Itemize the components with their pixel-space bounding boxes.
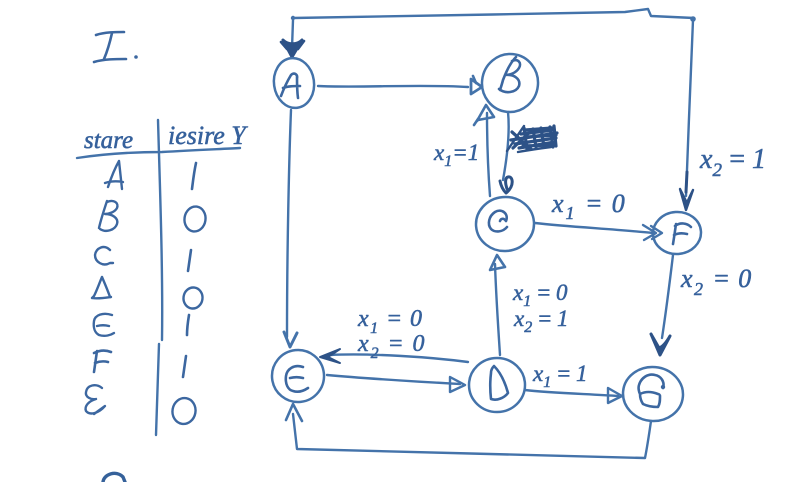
table vertical line (156, 120, 162, 435)
open arrowhead into E bottom (286, 404, 302, 421)
svg-text:x2 = 1: x2 = 1 (699, 144, 766, 181)
node A letter (281, 74, 300, 98)
open arrowhead into C bottom (490, 255, 505, 270)
heading roman numeral I. (94, 32, 138, 62)
table value 0 (G) (170, 396, 197, 426)
node A circle (271, 55, 318, 110)
open arrowhead into B bottom (477, 105, 494, 121)
node C circle (474, 195, 536, 254)
open arrowhead into B (471, 79, 482, 94)
wire C up to B (x1=1) (487, 113, 490, 196)
table row letter B (99, 201, 117, 231)
table value 1 (A) (192, 163, 196, 189)
arrowhead into C (500, 177, 512, 193)
wire E to D (lower) (327, 375, 460, 384)
node G circle (621, 364, 685, 423)
node D circle (469, 358, 525, 412)
scribble (crossed-out label) (507, 126, 557, 152)
node F letter (673, 223, 691, 244)
wire C to F (x1=0) (535, 223, 653, 233)
svg-text:x2 = 1: x2 = 1 (513, 306, 568, 336)
filled arrowhead into E (320, 349, 340, 363)
open arrowhead into E top (284, 332, 297, 347)
table row letter F (94, 351, 111, 372)
wire D to G (x1=1) (525, 390, 618, 396)
start dot (291, 16, 295, 20)
node G letter (639, 375, 664, 407)
right vertical wire down to F (686, 20, 693, 196)
wire D up to C (495, 264, 500, 355)
svg-text:iesire Y: iesire Y (168, 121, 248, 150)
svg-text:x1=1: x1=1 (433, 140, 479, 170)
node B circle (479, 51, 541, 115)
table row letter E (94, 314, 114, 336)
table row letter D (delta) (92, 277, 111, 298)
table value 1 (F) (183, 356, 186, 377)
partial mark bottom edge (103, 473, 125, 482)
open arrowhead into G (608, 388, 622, 403)
corner blob (690, 16, 696, 22)
double chevron arrowhead into F (643, 225, 662, 240)
reset arrow into A (292, 20, 293, 48)
table row letter C (95, 247, 113, 264)
table header underline (77, 148, 240, 158)
open arrowhead into D (450, 377, 465, 392)
wire B down to C (503, 112, 509, 180)
node E circle (269, 347, 326, 404)
svg-text:x1 = 0: x1 = 0 (551, 189, 627, 223)
svg-text:x2 = 0: x2 = 0 (680, 264, 753, 299)
node D letter (490, 366, 508, 400)
table value 0 (B) (183, 205, 207, 233)
reset arrowhead (filled smudge) (283, 40, 302, 57)
filled arrowhead into G (651, 334, 670, 355)
svg-text:x1 = 1: x1 = 1 (532, 361, 587, 391)
table value 1 (E) (187, 315, 189, 335)
table row letter G (86, 385, 105, 414)
node C letter (489, 211, 507, 232)
arrowhead into F (filled) (680, 189, 693, 210)
wire D to E (upper) (330, 354, 468, 362)
node F circle (652, 210, 703, 255)
wire A to B (318, 86, 468, 87)
wire G down and bottom wire back to E (293, 414, 651, 458)
wire A down to E (287, 110, 291, 337)
table value 1 (C) (188, 250, 191, 271)
table row letter A (105, 161, 123, 189)
node E letter (286, 366, 308, 392)
node B letter (499, 57, 520, 92)
table value 0 (D) (182, 286, 204, 309)
svg-text:stare: stare (84, 127, 133, 154)
wire F to G (x2=0) (662, 255, 673, 338)
top wire from reset point to F corner (293, 9, 694, 18)
